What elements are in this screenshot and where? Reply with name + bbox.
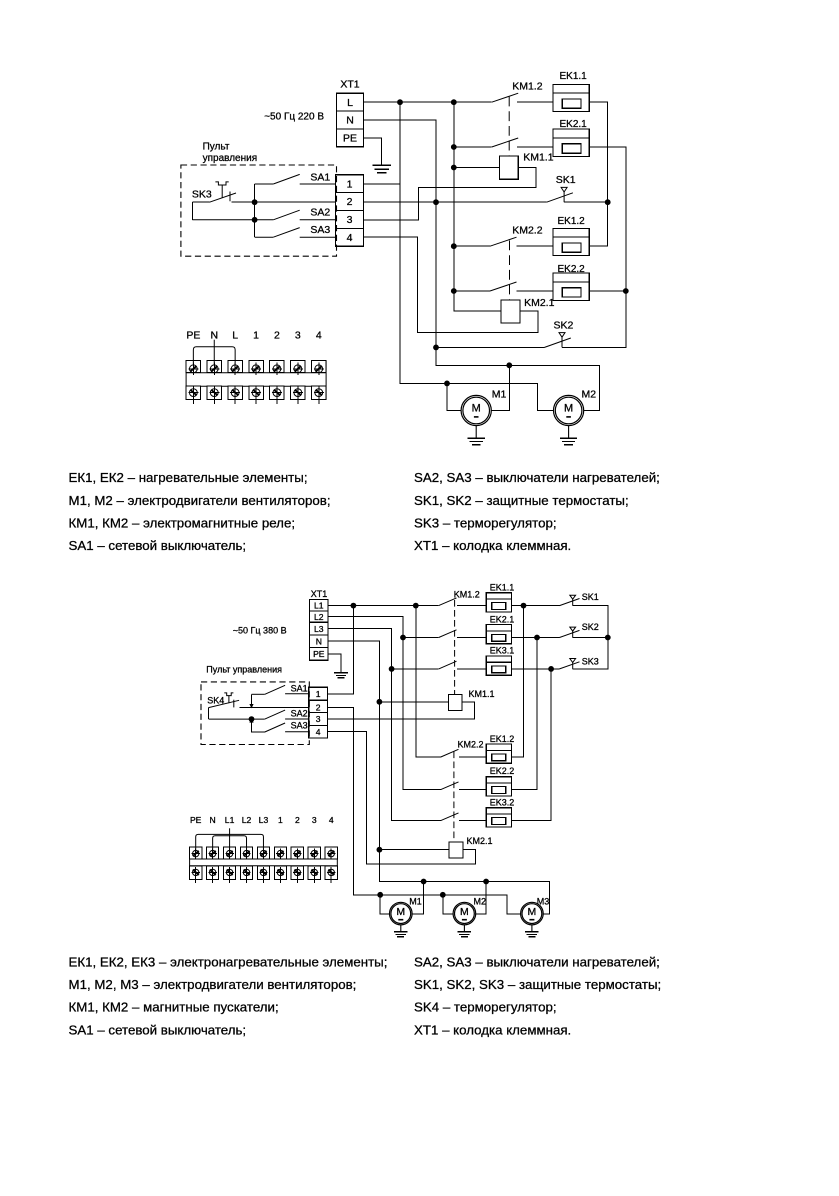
strip L1 lead (380V) <box>229 828 231 850</box>
legend 380V left column <box>69 955 388 1038</box>
heater EK3.2 (380V) <box>486 797 514 827</box>
svg-text:4: 4 <box>329 815 334 825</box>
junction EK1.2 row <box>451 243 457 249</box>
wire N row from XT1-N <box>364 120 600 410</box>
svg-text:N: N <box>210 815 216 825</box>
svg-text:SK3: SK3 <box>582 656 599 666</box>
svg-text:4: 4 <box>316 727 321 737</box>
ground M3 (380V) <box>525 932 539 937</box>
mechanical link KM1.2 dashed <box>508 97 510 156</box>
wire EK1.2 fixed side <box>517 245 554 247</box>
svg-text:SA1 – сетевой выключатель;: SA1 – сетевой выключатель; <box>69 1022 247 1037</box>
svg-text:2: 2 <box>295 815 300 825</box>
svg-text:1: 1 <box>347 178 353 190</box>
thermostat SK2 (380V) <box>560 627 580 637</box>
junction EK1.1 out / C1 <box>521 603 527 609</box>
junction L row / L bus <box>397 99 403 105</box>
svg-text:SA3: SA3 <box>310 224 330 236</box>
heater EK2.1 <box>553 119 589 156</box>
wire L2 to KM2.2 row2 <box>328 617 441 790</box>
switch SA2 <box>192 210 335 220</box>
svg-text:SK4 – терморегулятор;: SK4 – терморегулятор; <box>414 1000 557 1015</box>
svg-text:Пульт: Пульт <box>203 142 230 153</box>
thermoregulator SK3 <box>210 182 237 202</box>
svg-text:M: M <box>460 906 469 918</box>
wire EK2.2 fixed side <box>517 290 554 292</box>
ground M2 <box>560 438 577 445</box>
svg-text:EK3.1: EK3.1 <box>490 646 515 656</box>
junction EK2.2 row <box>451 288 457 294</box>
screw top (380V) <box>242 848 250 858</box>
relay contact KM2.2 (lower, EK2.2 row) <box>490 282 517 291</box>
svg-text:управления: управления <box>203 153 258 164</box>
wire EK2.1 out to SK2 <box>512 637 560 639</box>
terminal strip (220V) <box>186 361 326 400</box>
wire SK3 row right <box>232 201 336 203</box>
svg-text:M: M <box>396 906 405 918</box>
svg-text:PE: PE <box>343 133 357 145</box>
junction L3 / EK3.1 row <box>389 666 395 672</box>
svg-text:PE: PE <box>186 329 200 341</box>
wire SK1 fixed to vertical D <box>573 606 608 669</box>
ground PE <box>372 165 391 172</box>
svg-text:L1: L1 <box>225 815 235 825</box>
terminal block 1-4 (380V) <box>309 687 328 738</box>
junction EK3.1 out / C3 <box>548 666 554 672</box>
wire SK2 row from N bus <box>436 346 545 348</box>
wire KM2.2 r3 fixed <box>459 820 487 822</box>
screw top (380V) <box>293 848 301 858</box>
junction panel SK3 row <box>252 199 258 205</box>
thermostat SK1 <box>547 187 573 202</box>
junction N / KM2.1 input <box>377 847 383 853</box>
screw bottom (380V) <box>259 867 267 883</box>
svg-text:L2: L2 <box>314 612 324 622</box>
svg-text:L1: L1 <box>314 601 324 611</box>
wire EK3.1 out to SK3 <box>512 668 560 670</box>
screw bottom (220V) <box>209 386 219 403</box>
svg-text:2: 2 <box>347 196 353 208</box>
svg-text:M: M <box>528 906 537 918</box>
wire L contact bus vertical <box>454 102 501 311</box>
wire SK3 row left <box>192 201 209 203</box>
wire M2 left branch <box>443 895 453 914</box>
svg-text:SA2: SA2 <box>310 206 330 218</box>
wire KM2.1 coil input from N <box>379 849 449 851</box>
svg-text:N: N <box>316 636 322 646</box>
svg-text:1: 1 <box>278 815 283 825</box>
terminal block 1-4 (220V) <box>335 175 363 247</box>
wire KM2.2 r1 fixed <box>459 756 487 758</box>
svg-text:EK1.2: EK1.2 <box>558 216 586 227</box>
wire L bus vertical to motor feed <box>400 102 553 410</box>
junction SK2 / vertical D <box>605 635 611 641</box>
terminal block XT1 (220V) <box>337 93 364 147</box>
control panel box (dashed) <box>181 165 337 256</box>
svg-text:L3: L3 <box>314 624 324 634</box>
contactor contact KM1.2 phase3 <box>439 661 457 669</box>
svg-text:SA2, SA3 – выключатели нагрева: SA2, SA3 – выключатели нагревателей; <box>414 470 660 485</box>
strip jumper N-L2 (380V) <box>213 836 247 851</box>
junction panel SA2 row <box>252 217 258 223</box>
junction motor feed N / M1 right <box>506 362 512 368</box>
heater EK1.1 <box>553 71 589 111</box>
heater EK2.2 (380V) <box>486 766 514 796</box>
switch SA1 (380V) <box>252 685 309 694</box>
legend 220V right column <box>414 470 660 553</box>
contactor coil KM2.1 (380V) <box>449 842 463 858</box>
wire EK2.1 right to vertical B <box>562 147 626 347</box>
wire PE to ground <box>364 138 382 166</box>
wire L row from XT1-L to KM1.2 <box>364 101 492 103</box>
terminal strip (380V) <box>190 847 338 880</box>
screw top (380V) <box>259 848 267 858</box>
svg-text:KM1.1: KM1.1 <box>469 689 495 699</box>
ground M1 <box>468 438 485 445</box>
arrow junction SK4 row <box>249 704 253 708</box>
wire KM1.1 return to terminal3 <box>328 702 475 719</box>
svg-text:N: N <box>210 329 218 341</box>
arrow junction SA2 row <box>249 718 253 722</box>
wire M1 right branch <box>412 882 424 915</box>
wire M1 left branch <box>380 895 389 914</box>
screw bottom (220V) <box>272 386 282 403</box>
screw bottom (380V) <box>310 867 318 883</box>
wire KM1.2 contact1 fixed side <box>517 101 553 103</box>
svg-text:EK2.1: EK2.1 <box>560 119 588 130</box>
svg-text:EK1.2: EK1.2 <box>490 734 515 744</box>
heater EK1.2 <box>553 216 589 255</box>
svg-text:КМ1, КМ2 – электромагнитные ре: КМ1, КМ2 – электромагнитные реле; <box>69 515 296 530</box>
heater EK2.1 (380V) <box>486 614 514 643</box>
svg-text:SK2: SK2 <box>554 319 574 331</box>
svg-text:ЕК1, ЕК2 – нагревательные элем: ЕК1, ЕК2 – нагревательные элементы; <box>69 470 308 485</box>
junction L1 row / terminal1 riser <box>351 603 357 609</box>
svg-text:L3: L3 <box>259 815 269 825</box>
svg-text:1: 1 <box>253 329 259 341</box>
junction L2 / EK2.1 row <box>400 635 406 641</box>
screw bottom (220V) <box>230 386 240 403</box>
svg-text:PE: PE <box>190 815 202 825</box>
wire KM1.2 c3 fixed <box>457 668 487 670</box>
svg-text:SK3: SK3 <box>192 188 212 200</box>
legend 220V left column <box>69 470 331 553</box>
junction row A / M2 <box>483 879 489 885</box>
junction L1 row / KM2.2 branch <box>413 603 419 609</box>
wire vertical C2 EK2.1-EK2.2 <box>512 638 537 790</box>
svg-text:EK1.1: EK1.1 <box>490 582 515 592</box>
svg-text:SK4: SK4 <box>207 696 224 706</box>
svg-text:4: 4 <box>347 232 353 244</box>
svg-text:ХТ1 – колодка клеммная.: ХТ1 – колодка клеммная. <box>414 1022 571 1037</box>
svg-text:SK1, SK2 – защитные термостаты: SK1, SK2 – защитные термостаты; <box>414 493 629 508</box>
wire L1 to terminal1 <box>328 606 354 694</box>
strip jumper PE-L (220V) <box>193 347 235 365</box>
svg-text:EK3.2: EK3.2 <box>490 797 515 807</box>
wire terminal2 row / SK1 row <box>364 201 547 203</box>
screw bottom (220V) <box>293 386 303 403</box>
contactor contact KM1.2 phase1 <box>439 598 457 606</box>
wire M1 left branch <box>447 383 461 410</box>
contactor contact KM2.2 phase3 <box>441 813 459 821</box>
wire EK2.1 row <box>454 146 492 148</box>
svg-text:M2: M2 <box>474 896 487 906</box>
wire EK1.1 out to SK1 <box>512 605 560 607</box>
wire vertical C1 EK1.1-EK1.2 <box>512 606 524 757</box>
wire panel left vertical <box>191 202 193 220</box>
strip N lead (220V) <box>213 340 215 365</box>
svg-text:SA2, SA3 – выключатели нагрева: SA2, SA3 – выключатели нагревателей; <box>414 955 660 970</box>
motor M2 (380V) <box>453 896 486 931</box>
junction L row / contact bus <box>451 99 457 105</box>
wire L1 branch to KM2.2 row1 <box>416 606 441 757</box>
screw bottom (380V) <box>225 867 233 883</box>
wire terminal1 row to L bus <box>364 183 401 185</box>
mechanical link KM1.2 dashed (380V) <box>454 600 456 695</box>
screw top (220V) <box>251 363 261 375</box>
screw bottom (380V) <box>293 867 301 883</box>
svg-text:M: M <box>564 402 573 414</box>
strip jumper PE-L3 (380V) <box>196 834 264 850</box>
junction KM1.1 input <box>451 165 457 171</box>
switch SA2 (380V) <box>209 710 309 719</box>
svg-text:ЕК1, ЕК2, ЕК3 – электронагрева: ЕК1, ЕК2, ЕК3 – электронагревательные эл… <box>69 955 388 970</box>
wire M1 right branch <box>491 365 509 410</box>
junction EK2.1 row <box>451 144 457 150</box>
wire M2 right branch <box>476 882 486 915</box>
svg-text:L: L <box>347 97 353 109</box>
screw top (380V) <box>276 848 284 858</box>
junction motor feed L / M1 left <box>444 381 450 387</box>
wire KM1.2 c2 fixed <box>457 637 487 639</box>
motor M1 (380V) <box>390 896 422 931</box>
svg-text:ХТ1 – колодка клеммная.: ХТ1 – колодка клеммная. <box>414 538 571 553</box>
wire KM1.2 c1 fixed <box>457 605 487 607</box>
wire panel SA3 vertical (380V) <box>252 722 265 733</box>
svg-text:М1, М2, М3 – электродвигатели: М1, М2, М3 – электродвигатели вентилятор… <box>69 977 357 992</box>
relay coil KM1.1 <box>499 156 518 179</box>
svg-text:SK1, SK2, SK3 – защитные термо: SK1, SK2, SK3 – защитные термостаты; <box>414 977 661 992</box>
screw bottom (220V) <box>188 386 198 403</box>
svg-text:N: N <box>346 115 354 127</box>
junction row B / M1 <box>377 892 383 898</box>
ground PE (380V) <box>334 673 348 678</box>
contactor contact KM2.2 phase2 <box>441 782 459 790</box>
junction N / SK2 row <box>433 345 439 351</box>
junction EK2.1 out / C2 <box>534 635 540 641</box>
svg-text:L: L <box>232 329 238 341</box>
thermostat SK1 (380V) <box>560 595 580 605</box>
wire EK1.1 right to vertical A <box>589 102 607 246</box>
motor M2 <box>554 389 597 438</box>
contactor contact KM2.2 phase1 <box>441 749 459 757</box>
thermostat SK3 (380V) <box>560 659 580 669</box>
svg-text:2: 2 <box>316 703 321 713</box>
heater EK2.2 <box>553 264 589 300</box>
svg-text:M: M <box>472 402 481 414</box>
screw top (380V) <box>192 848 200 858</box>
junction N / KM1.1 input <box>377 699 383 705</box>
screw top (220V) <box>314 363 324 375</box>
junction row B / M2 <box>440 892 446 898</box>
wire SK2 fixed <box>573 637 608 639</box>
wire EK2.1 fixed side <box>517 146 553 148</box>
relay contact KM1.2 (lower, EK2.1 row) <box>492 138 519 147</box>
svg-text:M1: M1 <box>492 389 507 401</box>
wire EK3.1 row feed <box>392 668 439 670</box>
svg-text:SK1: SK1 <box>556 174 576 186</box>
motor M1 <box>461 389 506 438</box>
wire EK2.2 right to vertical B <box>589 290 626 292</box>
svg-text:М1, М2 – электродвигатели вент: М1, М2 – электродвигатели вентиляторов; <box>69 493 331 508</box>
svg-text:M3: M3 <box>537 896 550 906</box>
contactor contact KM1.2 phase2 <box>439 630 457 638</box>
switch SA3 (380V) <box>265 723 309 732</box>
relay contact KM2.2 (upper, EK1.2 row) <box>490 237 517 246</box>
svg-text:SA2: SA2 <box>291 708 308 718</box>
switch SA3 <box>255 228 336 238</box>
wire terminal2 to motor row B <box>328 707 521 914</box>
heater EK1.2 (380V) <box>486 734 514 764</box>
wire panel left vertical (380V) <box>208 708 210 720</box>
legend 380V right column <box>414 955 661 1038</box>
control panel box dashed (380V) <box>201 682 309 745</box>
thermoregulator SK4 <box>209 693 240 708</box>
wire N bus <box>328 641 550 914</box>
svg-text:2: 2 <box>274 329 280 341</box>
svg-text:SK3 – терморегулятор;: SK3 – терморегулятор; <box>414 515 557 530</box>
heater EK1.1 (380V) <box>486 582 514 612</box>
screw bottom (380V) <box>276 867 284 883</box>
screw top (220V) <box>272 363 282 375</box>
svg-text:SK2: SK2 <box>582 622 599 632</box>
svg-text:3: 3 <box>316 714 321 724</box>
wire EK2.2 row <box>454 290 490 292</box>
screw bottom (380V) <box>242 867 250 883</box>
svg-text:1: 1 <box>316 689 321 699</box>
svg-text:3: 3 <box>312 815 317 825</box>
junction row A / M1 <box>421 879 427 885</box>
svg-text:KM2.2: KM2.2 <box>458 739 484 749</box>
screw top (220V) <box>293 363 303 375</box>
mechanical link KM2.2 dashed <box>509 241 511 300</box>
ground M1 (380V) <box>394 932 408 937</box>
wire terminal4 to KM2.1 return <box>328 732 476 864</box>
screw top (380V) <box>310 848 318 858</box>
wire EK1.2 row <box>454 245 490 247</box>
svg-text:SA3: SA3 <box>291 721 308 731</box>
screw bottom (380V) <box>208 867 216 883</box>
screw bottom (220V) <box>314 386 324 403</box>
wire L3 to KM2.2 row3 <box>328 629 441 821</box>
thermostat SK2 <box>545 333 571 348</box>
junction EK2.2 / vertical B <box>623 288 629 294</box>
svg-text:KM1.2: KM1.2 <box>512 80 543 92</box>
svg-text:KM2.1: KM2.1 <box>467 836 493 846</box>
svg-text:M2: M2 <box>582 389 597 401</box>
svg-text:EK1.1: EK1.1 <box>560 71 588 82</box>
svg-text:3: 3 <box>295 329 301 341</box>
svg-text:~50 Гц 220 В: ~50 Гц 220 В <box>264 111 324 122</box>
wire terminal3 row to KM1.1 return <box>364 168 536 220</box>
svg-text:L2: L2 <box>242 815 252 825</box>
svg-text:SA1: SA1 <box>291 684 308 694</box>
svg-text:PE: PE <box>313 649 325 659</box>
screw top (220V) <box>188 363 198 375</box>
svg-text:SA1 – сетевой выключатель;: SA1 – сетевой выключатель; <box>69 538 247 553</box>
wire PE to ground <box>328 654 341 673</box>
wire SK4 row to terminal2 <box>240 707 309 709</box>
svg-text:EK2.1: EK2.1 <box>490 614 515 624</box>
wire terminal4 row to KM2.1 return <box>364 237 539 332</box>
junction SK1 / vertical A <box>605 199 611 205</box>
svg-text:SA1: SA1 <box>310 171 330 183</box>
switch SA1 <box>255 174 336 184</box>
svg-text:KM2.2: KM2.2 <box>512 224 543 236</box>
terminal block XT1 (380V) <box>309 599 328 660</box>
svg-text:XT1: XT1 <box>340 79 359 91</box>
svg-text:KM1.2: KM1.2 <box>454 589 480 599</box>
svg-text:M1: M1 <box>409 896 422 906</box>
heater EK3.1 (380V) <box>486 646 514 676</box>
contactor coil KM1.1 (380V) <box>448 695 461 711</box>
svg-text:3: 3 <box>347 214 353 226</box>
screw bottom (380V) <box>327 867 335 883</box>
screw top (220V) <box>230 363 240 375</box>
screw top (220V) <box>209 363 219 375</box>
svg-text:XT1: XT1 <box>311 589 328 599</box>
mechanical link KM2.2 dashed (380V) <box>453 752 455 843</box>
screw bottom (220V) <box>251 386 261 403</box>
wire panel SA1 vertical (380V) <box>251 694 253 705</box>
relay coil KM2.1 <box>501 300 520 323</box>
screw bottom (380V) <box>192 867 200 883</box>
ground M2 (380V) <box>458 932 472 937</box>
wire L1 row <box>328 605 439 607</box>
wire vertical C3 EK3.1-EK3.2 <box>512 669 551 821</box>
svg-text:~50 Гц 380 В: ~50 Гц 380 В <box>233 625 287 635</box>
relay contact KM1.2 (upper, L row) <box>492 93 519 102</box>
screw top (380V) <box>225 848 233 858</box>
svg-text:EK2.2: EK2.2 <box>490 766 515 776</box>
svg-text:КМ1, КМ2 – магнитные пускатели: КМ1, КМ2 – магнитные пускатели; <box>69 1000 279 1015</box>
svg-text:EK2.2: EK2.2 <box>558 264 586 275</box>
svg-text:KM1.1: KM1.1 <box>523 151 554 163</box>
wire KM1.1 coil input from N <box>379 701 448 703</box>
svg-text:4: 4 <box>316 329 322 341</box>
svg-text:KM2.1: KM2.1 <box>524 297 555 309</box>
motor M3 (380V) <box>521 896 550 931</box>
wire panel interconnect vertical <box>254 184 256 237</box>
screw top (380V) <box>327 848 335 858</box>
wire EK2.1 row feed <box>403 637 439 639</box>
wire SK1 fixed side to vertical A <box>564 201 608 203</box>
wire KM2.2 r2 fixed <box>459 789 487 791</box>
wire KM1.1 coil input <box>454 167 500 169</box>
screw top (380V) <box>208 848 216 858</box>
junction N / terminal2 row <box>433 199 439 205</box>
svg-text:SK1: SK1 <box>582 592 599 602</box>
svg-text:Пульт управления: Пульт управления <box>206 664 282 674</box>
